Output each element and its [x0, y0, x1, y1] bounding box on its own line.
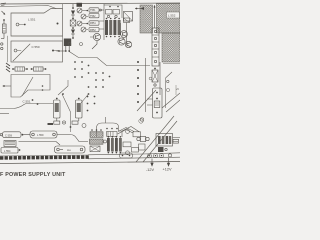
- bottom center cluster: [90, 129, 146, 158]
- small component right: [124, 18, 130, 23]
- svg-text:T552: T552: [90, 15, 96, 18]
- top border line: [0, 3, 180, 4]
- stacked label boxes x89-99: [89, 8, 104, 32]
- svg-text:T551: T551: [90, 9, 96, 12]
- top middle diode column: [70, 4, 76, 39]
- arrows -12V +12V: [151, 158, 170, 166]
- label window in H2: [167, 12, 180, 18]
- connector strip right: [152, 28, 159, 66]
- coil box L551: [11, 9, 63, 37]
- hatched box row2: [90, 139, 104, 144]
- transistor Q551: [90, 33, 101, 49]
- resistor 2: [31, 68, 33, 70]
- arrow: [2, 11, 6, 15]
- via dots cluster B: [88, 72, 111, 95]
- right edge board outline: [163, 64, 180, 109]
- node right L550: [52, 50, 54, 52]
- transistor Q553 left: [121, 12, 133, 38]
- bottom-left boxes: [0, 131, 88, 153]
- bottom sheet border: [0, 162, 180, 164]
- dots row: [91, 129, 93, 131]
- svg-text:L 552: L 552: [168, 14, 176, 18]
- resistor row below L550: [12, 67, 46, 71]
- via dots cluster A: [74, 61, 89, 78]
- dark choke T550: [57, 39, 83, 52]
- arrow lead left of hatch: [135, 8, 141, 10]
- resistor 1: [12, 68, 14, 70]
- wire W2 stub: [0, 113, 9, 115]
- dome shield outline bottom center: [97, 117, 144, 137]
- hatched shield region H2: [157, 4, 181, 34]
- main transformer cluster T553: [104, 4, 130, 45]
- svg-text:L 551: L 551: [28, 18, 36, 22]
- boxes right of transformer: [123, 142, 131, 147]
- terminal in L550: [14, 49, 17, 52]
- channel vertical wire: [154, 5, 156, 28]
- wire W3 long middle: [69, 52, 150, 66]
- tall label box right: [147, 88, 162, 118]
- box C559: [3, 132, 22, 138]
- diagonal in box3: [22, 77, 33, 96]
- wire box1 edge extensions: [62, 4, 64, 42]
- resistor R (vertical, left): [3, 19, 5, 21]
- fuse box right: [152, 68, 158, 87]
- bottom border lines right: [88, 153, 180, 159]
- open circles right area: [68, 43, 170, 124]
- wire W1 curved: [0, 104, 53, 114]
- svg-text:L 554: L 554: [4, 149, 11, 153]
- top-left corner marks: [1, 3, 7, 50]
- hatched box row1: [90, 132, 103, 138]
- circled diode chain: [77, 3, 89, 32]
- lead into box3: [3, 85, 12, 87]
- left edge connector circles: [1, 43, 3, 45]
- dark block: [158, 147, 164, 152]
- transformer bars: [107, 138, 110, 152]
- svg-text:+12V: +12V: [163, 168, 172, 172]
- extra cluster marks: [106, 6, 119, 130]
- node dot right L551: [57, 23, 59, 25]
- short diagonal wires mid: [58, 80, 89, 132]
- svg-text:C 551: C 551: [23, 100, 31, 104]
- long rounded box Au: [55, 146, 86, 153]
- svg-text:-12V: -12V: [146, 168, 154, 172]
- relay with circles: [137, 137, 140, 140]
- svg-text:C 559: C 559: [5, 133, 12, 137]
- ground hatch left edge: [6, 63, 10, 72]
- crystal box: [70, 20, 76, 26]
- relay box: [4, 141, 16, 147]
- terminal in L551: [16, 23, 19, 26]
- X box: [90, 146, 100, 152]
- capacitor box C551 area (box3): [3, 75, 51, 98]
- box L559: [30, 131, 57, 138]
- rounded box below: [120, 153, 133, 158]
- diagonal wire in L550: [13, 44, 30, 61]
- svg-text:R551: R551: [90, 22, 96, 25]
- svg-text:Au: Au: [67, 148, 71, 152]
- electrolytic cap C553: [72, 98, 82, 125]
- diode D1: [71, 11, 75, 16]
- wire from L559 right: [57, 135, 88, 142]
- sheet background: [0, 0, 180, 180]
- svg-text:F POWER SUPPLY UNIT: F POWER SUPPLY UNIT: [0, 172, 66, 178]
- top second wire: [0, 6, 56, 9]
- wire under: [19, 142, 61, 146]
- dashed bus bar bottom left: [0, 155, 89, 160]
- winding bars: [105, 20, 108, 35]
- dots column mid-right: [137, 61, 139, 103]
- hatched shield region H3: [162, 33, 180, 62]
- long diagonal wires right: [136, 62, 180, 162]
- bottom right cluster: [137, 134, 180, 153]
- terminal circles bottom right: [148, 154, 172, 158]
- diagonal wires up right: [118, 130, 134, 135]
- left border edge: [7, 36, 9, 62]
- diode D2: [71, 30, 75, 35]
- coil box L550: [11, 41, 63, 62]
- electrolytic cap C552: [54, 98, 61, 125]
- dots right of caps: [62, 93, 95, 111]
- transistor Q552 pair: [118, 38, 132, 48]
- transformer T554: [156, 134, 173, 147]
- svg-text:C 550: C 550: [32, 45, 40, 49]
- small parts under caps: [48, 121, 87, 128]
- svg-text:L 559: L 559: [37, 133, 44, 137]
- vertical wire x145: [145, 58, 147, 112]
- hatched shield region H1: [135, 4, 180, 63]
- box L554: [1, 148, 18, 154]
- svg-text:R552: R552: [90, 29, 96, 32]
